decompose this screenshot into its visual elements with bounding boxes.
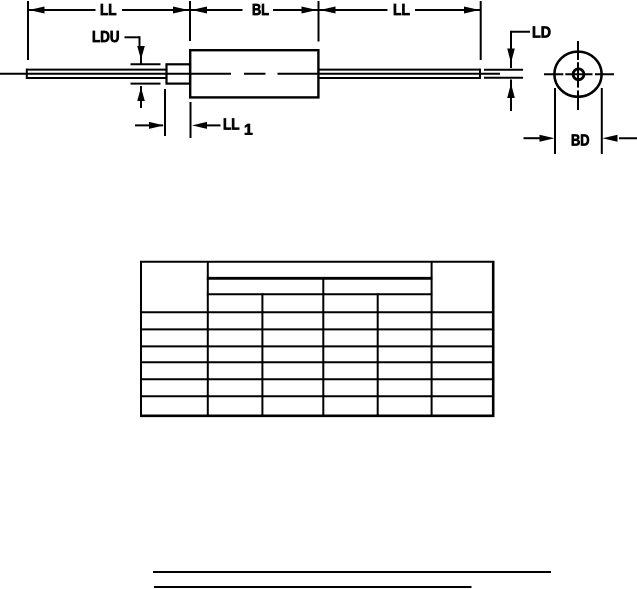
LL1 dimension line left [135, 124, 163, 126]
table header line 2 [207, 293, 433, 295]
table row line 2 [140, 328, 495, 330]
BD extension line right [601, 88, 603, 154]
table column line 5 [431, 261, 433, 417]
LL1 extension line left [164, 89, 166, 136]
LDU arrow down [137, 46, 145, 60]
end view horizontal centerline [544, 73, 563, 75]
table row line 1 [140, 311, 495, 313]
LL1 extension line right [190, 102, 192, 138]
label LL right [394, 4, 410, 15]
body centerline dash [244, 73, 266, 75]
component body [190, 50, 318, 97]
dimension extension line at body left [189, 1, 191, 41]
dimension line LL right [319, 9, 388, 11]
table column line 4 [377, 293, 379, 417]
table left border [140, 261, 142, 417]
dimension line BL [191, 9, 243, 11]
LD leader [511, 31, 531, 33]
LD arrow tail [510, 96, 512, 111]
BD dimension line right [619, 137, 637, 139]
arrowheads top dimension [29, 7, 480, 14]
end view inner circle [573, 69, 584, 80]
LD arrow down [507, 49, 515, 64]
end view outer circle [554, 52, 601, 97]
dimension extension line at body right [318, 1, 320, 42]
right lead center line [319, 73, 501, 75]
label LL left [101, 4, 116, 15]
table column line 3 [322, 277, 324, 417]
table header thick line [207, 277, 433, 280]
LDU arrow tail [140, 100, 142, 108]
left lead bottom line [26, 77, 167, 79]
label LL1 [224, 118, 239, 129]
label LD [533, 26, 550, 37]
LD arrow up [507, 84, 515, 99]
dimension line LL left [28, 9, 96, 11]
LL1 arrow left-pointing [192, 122, 207, 129]
right lead end cap [479, 69, 481, 79]
BD arrow left-pointing [603, 135, 618, 142]
dimension extension line right [480, 1, 482, 60]
table column line 2 [261, 293, 263, 417]
LD extension line top [484, 69, 523, 71]
LD extension line bottom [484, 77, 523, 79]
left lead center line [26, 73, 231, 75]
table row line 4 [140, 361, 495, 363]
table row line 3 [140, 345, 495, 347]
LDU arrow up [137, 88, 145, 102]
swage extension line top [131, 63, 161, 65]
bottom rule line 1 [153, 571, 551, 573]
swage extension line bottom [131, 83, 161, 85]
table row line 5 [140, 378, 495, 380]
end view vertical centerline [577, 41, 579, 60]
table top border [140, 261, 495, 263]
BD arrow right-pointing [540, 135, 555, 142]
label LDU [93, 31, 119, 42]
BD extension line left [554, 88, 556, 154]
right lead bottom line [319, 77, 481, 79]
label BL [253, 4, 269, 15]
table bottom border [140, 414, 495, 417]
table row line 6 [140, 395, 495, 397]
BD dimension line left [524, 137, 540, 139]
dimension extension line left [27, 1, 29, 60]
LL1 arrow right-pointing [149, 122, 164, 129]
left lead top line [26, 69, 167, 71]
left lead end cap [26, 69, 28, 79]
table grid [140, 261, 495, 417]
right lead top line [319, 69, 481, 71]
centerline left extension [0, 73, 26, 75]
table right border [492, 261, 495, 417]
table column line 1 [207, 261, 209, 417]
label BD [572, 134, 589, 145]
LL1 dimension line right [207, 124, 221, 126]
swage box [167, 64, 191, 83]
LDU leader [125, 36, 141, 47]
bottom rule line 2 [154, 586, 472, 588]
